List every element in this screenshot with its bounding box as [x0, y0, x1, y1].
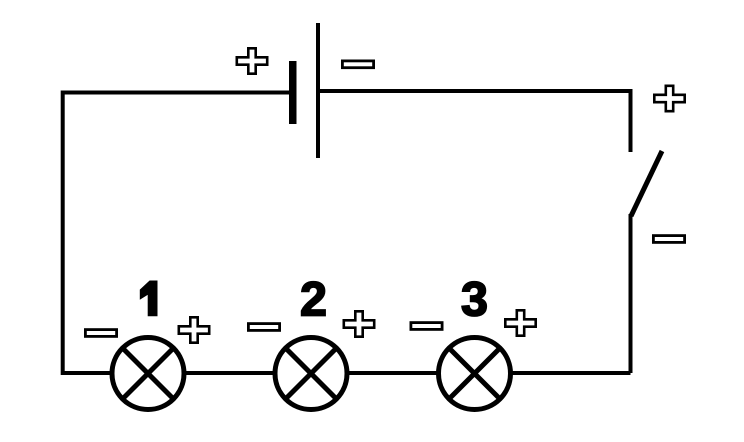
svg-text:2: 2: [300, 273, 327, 327]
svg-text:3: 3: [461, 273, 488, 327]
